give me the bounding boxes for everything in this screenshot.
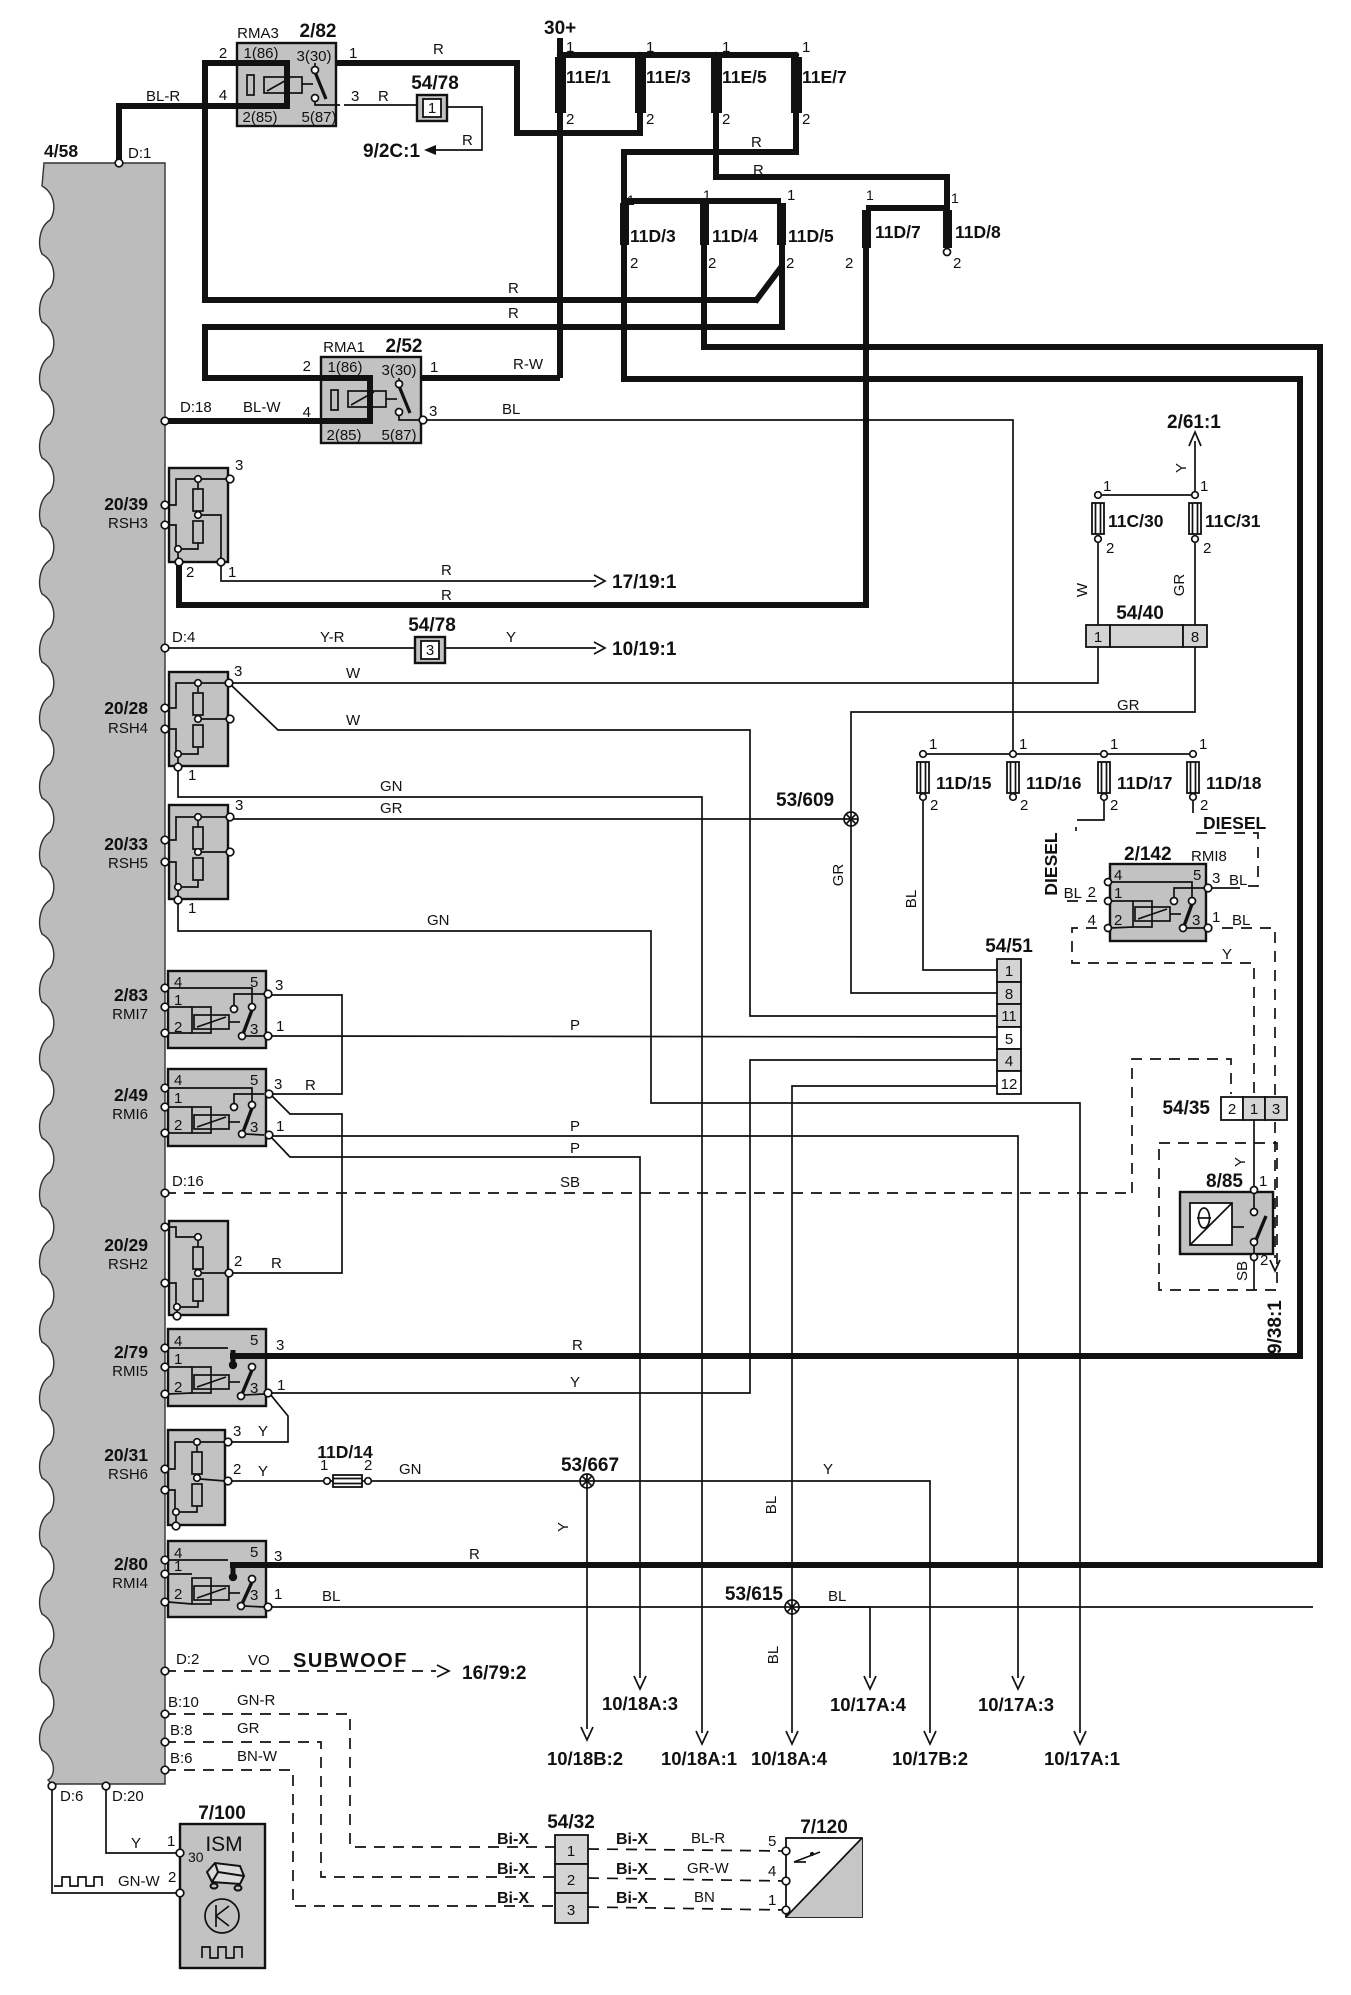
wire thick R from 20/39 pin 2 up to fuse 11D/7: [179, 245, 866, 605]
fuse 11E/7: [791, 57, 802, 113]
svg-text:1: 1: [228, 564, 236, 581]
svg-text:9/38:1: 9/38:1: [1265, 1300, 1286, 1354]
svg-text:BL: BL: [903, 890, 920, 908]
svg-text:5: 5: [250, 1544, 258, 1561]
svg-text:3: 3: [274, 1076, 282, 1093]
wire GR dashed from B:8 to 54/32 pin 2: [165, 1742, 555, 1877]
svg-text:RMI6: RMI6: [112, 1106, 148, 1123]
relay 2/80 RMI4: [168, 1541, 272, 1617]
relay RMA1 2/52: [321, 357, 427, 443]
svg-text:1: 1: [1094, 629, 1102, 646]
svg-text:1: 1: [1250, 1101, 1258, 1118]
svg-text:2(85): 2(85): [242, 109, 277, 126]
svg-text:3: 3: [429, 403, 437, 420]
control module 7/120: [782, 1838, 862, 1917]
svg-text:2: 2: [708, 255, 716, 272]
fuse 11D/15: [917, 751, 929, 801]
fuse 11D/3: [620, 203, 629, 245]
labels 2/80 pins: [174, 1544, 480, 1605]
wire Y branch from 2/79 pin 1 to 20/31 pin 3: [230, 1394, 288, 1442]
svg-text:R: R: [305, 1077, 316, 1094]
svg-text:2: 2: [174, 1586, 182, 1603]
svg-text:1: 1: [929, 736, 937, 753]
labels 20/31 pins: [233, 1423, 833, 1532]
svg-text:2: 2: [953, 255, 961, 272]
svg-text:2: 2: [174, 1379, 182, 1396]
svg-text:11E/3: 11E/3: [646, 67, 691, 87]
svg-text:BL: BL: [1064, 885, 1082, 902]
svg-text:53/615: 53/615: [725, 1584, 784, 1605]
labels RMA1 area: [180, 336, 544, 444]
svg-text:2: 2: [1114, 912, 1122, 929]
relay 2/142 RMI8 (diesel): [1105, 864, 1212, 941]
wire from 11D/18 pin 2 to DIESEL label: [1192, 799, 1194, 813]
svg-text:GN-R: GN-R: [237, 1692, 275, 1709]
svg-text:Bi-X: Bi-X: [497, 1831, 529, 1848]
wire Y from D:20 to 7/100 pin 1: [106, 1788, 178, 1853]
wire Y from 2/79 pin 1 to 54/51 pin 4: [270, 1060, 997, 1393]
svg-text:BL: BL: [763, 1496, 780, 1514]
svg-text:Y: Y: [258, 1463, 268, 1480]
svg-text:VO: VO: [248, 1652, 270, 1669]
svg-text:ISM: ISM: [205, 1833, 242, 1856]
labels 2/83 pins: [174, 974, 580, 1038]
svg-text:8: 8: [1005, 986, 1013, 1003]
svg-text:4: 4: [1005, 1053, 1013, 1070]
wire BL dashed from 2/142 pin 3 down to 9/38:1: [1222, 928, 1275, 1258]
svg-text:R: R: [751, 134, 762, 151]
svg-text:BN-W: BN-W: [237, 1748, 278, 1765]
svg-text:5: 5: [768, 1833, 776, 1850]
fuse 11E/3: [635, 57, 646, 113]
svg-text:R: R: [433, 41, 444, 58]
svg-text:GR: GR: [1117, 697, 1140, 714]
wire 11D/5 pin 2 down then R line 2 to RMA1 pin 2: [205, 245, 782, 378]
svg-text:11D/8: 11D/8: [955, 222, 1001, 242]
svg-text:5: 5: [250, 1072, 258, 1089]
svg-text:RSH6: RSH6: [108, 1466, 148, 1483]
svg-text:BL: BL: [828, 1588, 846, 1605]
svg-text:1: 1: [1199, 736, 1207, 753]
wire GN from 20/33 pin 1 to 10/17A:1: [178, 902, 1080, 1733]
svg-text:Y: Y: [1173, 463, 1190, 473]
svg-text:1: 1: [276, 1118, 284, 1135]
wire BL dashed diesel from 11D/18 to relay 2/142 pin 5: [1196, 833, 1258, 886]
connector pins on 4/58 bar edge: [48, 159, 169, 1790]
svg-text:2: 2: [1200, 797, 1208, 814]
svg-text:D:6: D:6: [60, 1788, 83, 1805]
resistor heater 20/28 RSH4: [165, 672, 234, 771]
svg-text:3: 3: [235, 457, 243, 474]
wire GN from 20/28 pin 1 down to 10/18A:1: [178, 769, 702, 1733]
svg-text:11E/7: 11E/7: [802, 67, 847, 87]
svg-text:11D/17: 11D/17: [1117, 773, 1172, 793]
svg-text:30+: 30+: [544, 18, 576, 39]
fuse 54/78:3: [415, 637, 445, 663]
svg-text:2/82: 2/82: [300, 21, 337, 42]
svg-text:11D/4: 11D/4: [712, 226, 758, 246]
connector 4/58 (ECU / amplifier block, torn left edge): [40, 163, 165, 1784]
svg-text:4: 4: [174, 974, 182, 991]
svg-text:11D/3: 11D/3: [630, 226, 676, 246]
resistor heater 20/39 RSH3: [165, 468, 234, 566]
svg-text:1: 1: [277, 1377, 285, 1394]
svg-text:1: 1: [174, 1090, 182, 1107]
svg-text:R: R: [441, 562, 452, 579]
svg-text:20/33: 20/33: [104, 834, 148, 854]
svg-text:2/52: 2/52: [386, 336, 423, 357]
svg-text:53/667: 53/667: [561, 1455, 619, 1476]
svg-text:3: 3: [235, 797, 243, 814]
svg-text:5(87): 5(87): [381, 427, 416, 444]
svg-text:3: 3: [274, 1548, 282, 1565]
wire R from 54/78:1 to 9/2C:1 arrow: [436, 107, 482, 150]
svg-text:53/609: 53/609: [776, 790, 834, 811]
svg-text:BL: BL: [1232, 912, 1250, 929]
wire diagonal R line 1 up to fuse 11D/5 pin 2: [755, 266, 782, 302]
svg-text:1: 1: [1110, 736, 1118, 753]
svg-text:54/78: 54/78: [411, 73, 459, 94]
svg-text:P: P: [570, 1017, 580, 1034]
svg-text:BL: BL: [502, 401, 520, 418]
svg-text:5: 5: [250, 974, 258, 991]
svg-text:20/28: 20/28: [104, 698, 148, 718]
wire RMA3 coil U: [240, 63, 287, 106]
wire BL dashed diesel from 11D/17 to relay 2/142 pin 2: [1076, 820, 1088, 831]
svg-text:4/58: 4/58: [44, 141, 78, 161]
svg-text:RSH2: RSH2: [108, 1256, 148, 1273]
wire GR from 54/40 pin 8 via junction 53/609 to 54/51 pin 8: [851, 647, 1195, 993]
svg-text:10/18A:3: 10/18A:3: [602, 1693, 678, 1714]
svg-text:7/120: 7/120: [800, 1817, 848, 1838]
svg-text:3: 3: [1272, 1101, 1280, 1118]
wire BL from 54/51 pin 12 via junction 53/615 to 10/18A:4: [792, 1086, 997, 1733]
svg-text:11D/15: 11D/15: [936, 773, 992, 793]
svg-text:RMA3: RMA3: [237, 25, 279, 42]
svg-text:B:6: B:6: [170, 1750, 193, 1767]
wire BL from 2/80 pin 1 through junction 53/615: [270, 1606, 1313, 1608]
svg-text:4: 4: [219, 87, 227, 104]
wire Y dashed from 2/142 pin 4 to connector 54/35 pin 1: [1072, 928, 1254, 1094]
svg-text:2: 2: [174, 1019, 182, 1036]
connector 54/32: [555, 1835, 588, 1923]
wire GR from 20/33 pin 3 to junction 53/609: [231, 818, 851, 820]
svg-text:3: 3: [276, 1337, 284, 1354]
wire P branch from 2/49 pin 1 to 10/18A:3: [271, 1137, 640, 1678]
wire BL from 11D/15 pin 2 to 54/51 pin 1: [923, 799, 997, 970]
connector 54/40: [1086, 625, 1207, 647]
svg-text:1: 1: [1103, 478, 1111, 495]
wire GN-R dashed from B:10 to 54/32 pin 1: [165, 1714, 555, 1847]
svg-text:11E/1: 11E/1: [566, 67, 611, 87]
svg-text:11D/18: 11D/18: [1206, 773, 1262, 793]
svg-text:2/80: 2/80: [114, 1554, 148, 1574]
dashed option box around 54/35: [1132, 1059, 1231, 1193]
wire Y from junction 53/667 down to 10/18B:2: [586, 1481, 588, 1729]
junction 53/609: [844, 812, 858, 826]
svg-text:3: 3: [351, 88, 359, 105]
svg-text:D:18: D:18: [180, 399, 212, 416]
svg-text:B:8: B:8: [170, 1722, 193, 1739]
fuse 11D/7: [862, 210, 871, 248]
svg-text:2: 2: [930, 797, 938, 814]
svg-text:R: R: [753, 162, 764, 179]
resistor heater 20/29 RSH2: [165, 1221, 233, 1320]
svg-text:54/78: 54/78: [408, 615, 456, 636]
svg-text:R: R: [572, 1337, 583, 1354]
svg-text:1: 1: [722, 39, 730, 56]
svg-text:1: 1: [866, 187, 874, 203]
svg-text:R: R: [271, 1255, 282, 1272]
svg-text:2/61:1: 2/61:1: [1167, 412, 1221, 433]
svg-text:RSH5: RSH5: [108, 855, 148, 872]
svg-text:4: 4: [1088, 912, 1096, 929]
svg-text:2: 2: [1020, 797, 1028, 814]
svg-text:Y: Y: [823, 1461, 833, 1478]
svg-text:10/18A:1: 10/18A:1: [661, 1748, 737, 1769]
svg-text:3: 3: [233, 1423, 241, 1440]
svg-text:11C/30: 11C/30: [1108, 511, 1164, 531]
svg-text:1: 1: [430, 359, 438, 376]
wire Bi-X / BN dashed from 54/32 pin 3 to 7/120 pin 1: [588, 1907, 786, 1910]
wire 2/83 pin 3 to 2/49 pin 3 (R): [270, 995, 342, 1094]
fuse 11D/17: [1098, 751, 1110, 801]
fuse 11D/14: [324, 1475, 372, 1487]
svg-text:R-W: R-W: [513, 356, 544, 373]
svg-text:54/32: 54/32: [547, 1812, 595, 1833]
svg-text:1: 1: [787, 187, 795, 204]
svg-text:R: R: [508, 305, 519, 322]
svg-text:BL-W: BL-W: [243, 399, 281, 416]
svg-text:8: 8: [1191, 629, 1199, 646]
svg-text:Y: Y: [555, 1522, 572, 1532]
relay RMA3 2/82: [237, 43, 340, 126]
svg-text:11C/31: 11C/31: [1205, 511, 1261, 531]
svg-text:7/100: 7/100: [198, 1803, 246, 1824]
svg-text:10/17B:2: 10/17B:2: [892, 1748, 968, 1769]
wire Bi-X / BL-R dashed from 54/32 pin 1 to 7/120 pin 5: [588, 1849, 786, 1851]
svg-text:SUBWOOF: SUBWOOF: [293, 1650, 408, 1672]
wire W from 20/28 pin 3 to connector 54/40 pin 1: [231, 647, 1098, 683]
resistor heater 20/33 RSH5: [165, 805, 234, 904]
wire 11D/3 pin 2 down then R line B right and down to 2/79: [266, 245, 1300, 1356]
svg-text:1: 1: [1114, 885, 1122, 902]
wire R-W from 30+ node to RMA1 pin 1: [397, 375, 560, 381]
svg-text:GR: GR: [1171, 574, 1188, 597]
svg-text:1: 1: [1212, 909, 1220, 926]
labels right section: [344, 412, 1286, 1354]
fuse 11E/1: [555, 57, 566, 113]
svg-text:1: 1: [174, 1351, 182, 1368]
wire Y/GN from 20/31 pin 2 through 11D/14 and 53/667 to 10/17B:2: [230, 1480, 333, 1482]
svg-text:9/2C:1: 9/2C:1: [363, 141, 420, 162]
svg-text:1: 1: [349, 45, 357, 62]
wire GN-W from D:6 to 7/100 pin 2: [52, 1788, 178, 1893]
control module 7/100 ISM: [176, 1824, 265, 1968]
fuse 54/78:1: [417, 95, 447, 121]
svg-text:12: 12: [1001, 1076, 1018, 1093]
svg-text:2: 2: [1260, 1252, 1268, 1269]
fuse 11C/31: [1189, 492, 1201, 543]
svg-text:GR: GR: [237, 1720, 260, 1737]
wire branch 2/49 pin 3 to 20/29 pin 2 (R): [231, 1095, 342, 1273]
svg-text:Bi-X: Bi-X: [616, 1831, 648, 1848]
junction 53/667: [580, 1474, 594, 1488]
svg-text:1: 1: [428, 100, 436, 117]
svg-text:30: 30: [188, 1849, 204, 1865]
fuse 11D/4: [700, 203, 709, 245]
svg-text:BL-R: BL-R: [691, 1830, 725, 1847]
svg-text:RMI4: RMI4: [112, 1575, 148, 1592]
svg-text:11D/7: 11D/7: [875, 222, 921, 242]
svg-text:2: 2: [364, 1457, 372, 1474]
svg-text:11D/16: 11D/16: [1026, 773, 1082, 793]
svg-text:GN-W: GN-W: [118, 1873, 160, 1890]
wire RMA3 pin 2 loop down to R line 1: [205, 63, 757, 300]
svg-text:Y: Y: [131, 1835, 141, 1852]
fuse 11D/18: [1187, 751, 1199, 801]
svg-text:3: 3: [275, 977, 283, 994]
wire BN-W dashed from B:6 to 54/32 pin 3: [165, 1770, 555, 1906]
svg-text:BL: BL: [765, 1646, 782, 1664]
wire Y solid from 54/35 pin 1 to thermostat 8/85 pin 1: [1253, 1120, 1255, 1186]
wire SB dashed from D:16 to dashed option box: [165, 1192, 1132, 1194]
fuse 11D/8: [943, 210, 952, 248]
wire W 11C/30 pin 2 to 54/40 pin 1: [1097, 541, 1099, 625]
svg-text:17/19:1: 17/19:1: [612, 572, 677, 593]
svg-text:SB: SB: [560, 1174, 580, 1191]
wire P from 2/83 pin 1 to 54/51 pin 5: [270, 1036, 997, 1037]
svg-text:D:1: D:1: [128, 145, 151, 162]
svg-text:10/18B:2: 10/18B:2: [547, 1748, 623, 1769]
svg-text:5: 5: [1193, 867, 1201, 884]
svg-text:2: 2: [168, 1869, 176, 1886]
svg-text:3: 3: [234, 663, 242, 680]
svg-text:4: 4: [174, 1333, 182, 1350]
svg-text:SB: SB: [1234, 1261, 1251, 1281]
svg-text:D:16: D:16: [172, 1173, 204, 1190]
svg-text:10/17A:1: 10/17A:1: [1044, 1748, 1120, 1769]
svg-text:RMI5: RMI5: [112, 1363, 148, 1380]
svg-text:Bi-X: Bi-X: [497, 1861, 529, 1878]
svg-text:1(86): 1(86): [243, 45, 278, 62]
wire RMA1 coil U and BL-W from D:18: [165, 378, 370, 421]
svg-text:10/17A:3: 10/17A:3: [978, 1694, 1054, 1715]
fuse 11D/16: [1007, 751, 1019, 801]
svg-text:1: 1: [802, 39, 810, 56]
svg-text:BN: BN: [694, 1889, 715, 1906]
svg-text:BL: BL: [322, 1588, 340, 1605]
svg-text:2: 2: [303, 358, 311, 375]
svg-text:W: W: [346, 712, 361, 729]
svg-text:2/83: 2/83: [114, 985, 148, 1005]
wire GR 11C/31 pin 2 to 54/40 pin 8: [1194, 541, 1196, 625]
svg-text:2: 2: [1110, 797, 1118, 814]
svg-text:Y: Y: [570, 1374, 580, 1391]
wire from 11D/17 pin 2 to DIESEL bracket: [1088, 799, 1104, 820]
svg-text:GN: GN: [427, 912, 450, 929]
svg-text:5: 5: [1005, 1031, 1013, 1048]
wire 11E/3 pin 2 drop: [637, 112, 643, 135]
wire BL from RMA1 pin 3 to fuse 11D/16 pin 1: [426, 420, 1013, 754]
svg-text:1: 1: [768, 1892, 776, 1909]
svg-text:4: 4: [174, 1072, 182, 1089]
svg-text:Bi-X: Bi-X: [497, 1890, 529, 1907]
svg-text:Bi-X: Bi-X: [616, 1861, 648, 1878]
svg-text:54/40: 54/40: [1116, 603, 1164, 624]
wire BL-R from D:1 to relay RMA3 pin 4: [119, 106, 240, 163]
relay 2/79 RMI5: [168, 1329, 272, 1406]
svg-text:W: W: [1074, 582, 1091, 597]
junction 53/615: [785, 1600, 799, 1614]
svg-text:D:4: D:4: [172, 629, 195, 646]
wire 11D/4 pin 2 down then R line A right and down to 2/80: [266, 245, 1320, 1565]
labels 20/29 pins: [234, 1253, 282, 1272]
svg-text:RSH4: RSH4: [108, 720, 148, 737]
wire R from 11E/7 pin 2 to 11D/3,4,5 bus: [624, 112, 796, 201]
svg-text:11D/5: 11D/5: [788, 226, 834, 246]
svg-text:20/29: 20/29: [104, 1235, 148, 1255]
svg-text:4: 4: [768, 1863, 776, 1880]
svg-text:2: 2: [1088, 884, 1096, 901]
svg-text:3: 3: [1212, 870, 1220, 887]
svg-text:2: 2: [845, 255, 853, 272]
svg-text:GN: GN: [399, 1461, 422, 1478]
svg-text:2: 2: [233, 1461, 241, 1478]
wire Y-R / Y from D:4 through 54/78:3 to 10/19:1 arrow: [165, 647, 417, 649]
svg-text:2/49: 2/49: [114, 1085, 148, 1105]
svg-text:2: 2: [567, 1872, 575, 1889]
svg-text:5: 5: [250, 1332, 258, 1349]
svg-text:1: 1: [627, 192, 635, 208]
svg-text:Y-R: Y-R: [320, 629, 345, 646]
labels left column components: [104, 457, 677, 1592]
svg-text:1: 1: [703, 187, 711, 203]
labels bottom arrows: [547, 1496, 1120, 1769]
svg-text:1: 1: [320, 1457, 328, 1474]
wire P from 2/49 pin 1 to 10/17A:3: [271, 1136, 1018, 1678]
fuse 11C/30: [1092, 492, 1104, 543]
svg-text:1: 1: [274, 1586, 282, 1603]
svg-text:3: 3: [567, 1902, 575, 1919]
svg-text:D:20: D:20: [112, 1788, 144, 1805]
svg-text:1: 1: [1005, 963, 1013, 980]
svg-text:P: P: [570, 1118, 580, 1135]
svg-text:BL-R: BL-R: [146, 88, 180, 105]
svg-text:1: 1: [174, 1558, 182, 1575]
wire W branch from 20/28 pin 3 to 54/51 pin 11: [231, 685, 997, 1016]
svg-text:10/19:1: 10/19:1: [612, 639, 677, 660]
svg-text:RSH3: RSH3: [108, 515, 148, 532]
wire BL branch from 53/615 to 10/17A:4: [792, 1607, 870, 1678]
svg-text:11E/5: 11E/5: [722, 67, 767, 87]
svg-text:GR: GR: [380, 800, 403, 817]
labels 2/79 pins: [174, 1332, 583, 1397]
wire R from RMA3 pin 3 to fuse 54/78:1: [344, 104, 419, 106]
connector 54/51: [997, 959, 1021, 1094]
svg-text:10/17A:4: 10/17A:4: [830, 1694, 907, 1715]
node 30+ bus joints: [557, 52, 799, 58]
svg-text:RMI7: RMI7: [112, 1006, 148, 1023]
svg-text:2: 2: [219, 45, 227, 62]
svg-text:R: R: [469, 1546, 480, 1563]
square wave symbol on GN-W wire: [54, 1877, 102, 1886]
svg-text:3(30): 3(30): [296, 48, 331, 65]
svg-text:DIESEL: DIESEL: [1203, 813, 1267, 833]
wire 17/19:1 from 20/39 pin 1: [221, 565, 596, 581]
svg-text:3: 3: [250, 1380, 258, 1397]
svg-text:R: R: [462, 132, 473, 149]
